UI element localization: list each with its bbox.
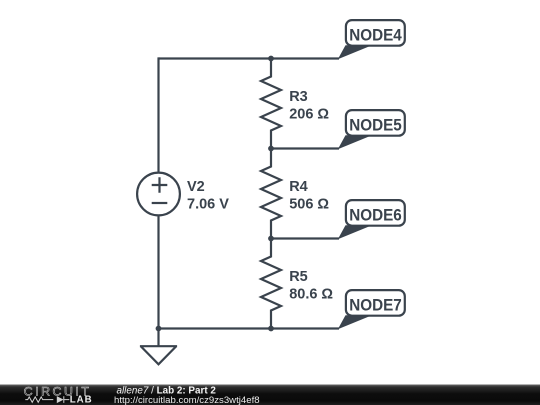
svg-text:R5: R5 bbox=[289, 269, 308, 285]
svg-text:206 Ω: 206 Ω bbox=[289, 107, 329, 123]
svg-text:LAB: LAB bbox=[70, 394, 93, 405]
svg-text:V2: V2 bbox=[187, 179, 205, 195]
svg-text:506 Ω: 506 Ω bbox=[289, 197, 329, 213]
svg-text:NODE5: NODE5 bbox=[349, 116, 402, 134]
svg-text:R4: R4 bbox=[289, 179, 308, 195]
svg-text:R3: R3 bbox=[289, 89, 308, 105]
svg-text:NODE4: NODE4 bbox=[349, 26, 402, 44]
svg-text:80.6 Ω: 80.6 Ω bbox=[289, 287, 333, 303]
svg-text:7.06 V: 7.06 V bbox=[187, 197, 229, 213]
svg-text:NODE6: NODE6 bbox=[349, 206, 402, 224]
svg-text:NODE7: NODE7 bbox=[349, 296, 402, 314]
svg-text:http://circuitlab.com/cz9zs3wt: http://circuitlab.com/cz9zs3wtj4ef8 bbox=[114, 395, 260, 405]
